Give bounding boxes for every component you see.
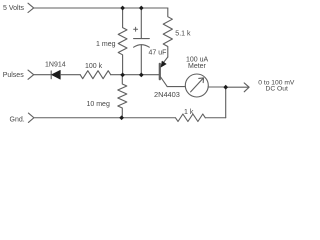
junction dot top rail / 1 meg xyxy=(120,6,125,11)
svg-text:DC Out: DC Out xyxy=(266,86,288,93)
svg-text:Gnd.: Gnd. xyxy=(10,116,25,123)
svg-text:Pulses: Pulses xyxy=(3,72,25,79)
resistor 5.1 k xyxy=(163,8,172,57)
wire output arrow 0 to 100 mV DC Out xyxy=(226,83,249,92)
junction dot ground rail / 10 meg xyxy=(119,115,124,120)
capacitor 47 uF xyxy=(134,8,150,75)
node Pulses input connector xyxy=(28,70,34,79)
wire ground rail xyxy=(34,117,175,119)
wire Pulses to diode xyxy=(34,74,51,76)
node output junction xyxy=(225,87,227,118)
svg-text:47 uF: 47 uF xyxy=(149,49,167,56)
junction dot top rail / 47 uF xyxy=(139,6,144,11)
resistor 100 k xyxy=(80,71,111,79)
svg-text:1 k: 1 k xyxy=(184,109,194,116)
junction dot pulses line / 47 uF xyxy=(139,73,144,78)
svg-text:1 meg: 1 meg xyxy=(96,41,116,48)
meter M1 100 uA xyxy=(185,74,208,97)
junction dot pulses line / 1 meg / 10 meg xyxy=(120,73,125,78)
svg-text:5.1 k: 5.1 k xyxy=(175,31,191,38)
transistor Q1 2N4403 xyxy=(160,57,168,87)
wire collector to meter xyxy=(167,86,185,88)
node 5 Volts input connector xyxy=(28,3,34,12)
resistor 1 meg xyxy=(118,8,127,75)
resistor 1 k xyxy=(176,114,206,122)
svg-text:100 k: 100 k xyxy=(85,63,103,70)
resistor 10 meg xyxy=(118,75,127,118)
wire 100k to transistor base xyxy=(111,74,160,76)
wire top rail from 5V connector to 5.1k xyxy=(34,7,168,9)
svg-text:Meter: Meter xyxy=(188,63,207,70)
svg-text:1N914: 1N914 xyxy=(45,62,66,69)
svg-text:2N4403: 2N4403 xyxy=(154,90,180,99)
wire meter to output node xyxy=(208,86,226,88)
diode 1N914 xyxy=(51,70,60,79)
junction dot output node xyxy=(223,85,228,90)
svg-text:5 Volts: 5 Volts xyxy=(3,5,25,12)
node Gnd input connector xyxy=(28,113,34,122)
svg-text:10 meg: 10 meg xyxy=(87,101,110,108)
wire 1k to output junction xyxy=(205,117,225,119)
wire diode to 100k xyxy=(60,74,80,76)
